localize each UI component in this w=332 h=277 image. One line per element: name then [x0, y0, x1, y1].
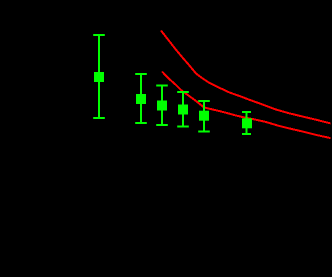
data point 5 marker — [199, 111, 209, 121]
data point 4 marker — [178, 105, 188, 115]
data point 5 error bar — [198, 101, 210, 132]
data point 6 error bar — [242, 112, 251, 134]
data point 6 marker — [242, 118, 252, 128]
data point 3 error bar — [156, 86, 168, 126]
data point 3 marker — [157, 101, 167, 111]
theory curve lower (red) — [162, 72, 331, 139]
data point 1 marker — [94, 72, 104, 82]
data point 2 marker — [136, 94, 146, 104]
data point 4 error bar — [177, 92, 189, 127]
theory curve upper (red) — [161, 31, 331, 124]
data point 1 error bar — [93, 35, 105, 118]
data point 2 error bar — [135, 74, 147, 123]
